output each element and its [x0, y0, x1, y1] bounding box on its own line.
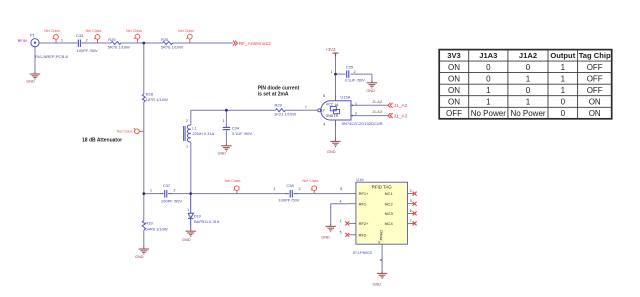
svg-text:0: 0 — [486, 63, 491, 72]
port RF_Antenna12 — [233, 41, 238, 46]
wire top: R25 to junction A — [121, 42, 144, 44]
svg-text:0: 0 — [486, 74, 491, 83]
wire top: junction A to R26 — [144, 42, 163, 44]
svg-text:ON: ON — [589, 109, 601, 118]
svg-text:NC2: NC2 — [385, 201, 394, 206]
net class flag 1 — [53, 35, 59, 43]
svg-text:1A: 1A — [334, 103, 339, 107]
junction E — [225, 109, 228, 112]
net class flag 6 — [233, 186, 239, 193]
svg-text:0.1UF /50V: 0.1UF /50V — [232, 131, 253, 136]
svg-text:L1: L1 — [192, 125, 197, 130]
port J1_A3 — [388, 113, 393, 118]
svg-text:ON: ON — [448, 86, 460, 95]
wire attenuator vertical: R28 to junction B — [143, 102, 145, 194]
svg-text:1: 1 — [61, 38, 63, 42]
wire U16 PPAD to ground — [381, 253, 383, 271]
svg-text:is set at 2mA: is set at 2mA — [258, 91, 289, 97]
svg-text:18 dB Attenuator: 18 dB Attenuator — [82, 137, 122, 143]
svg-text:64R9 1/10W: 64R9 1/10W — [145, 227, 167, 232]
svg-text:Net Class: Net Class — [117, 129, 133, 133]
resistor R26 — [163, 42, 173, 45]
wire +3V3 rail down to U15A pin 8 — [335, 56, 337, 101]
U16 pin 4 stub — [348, 203, 356, 205]
svg-text:RF2+: RF2+ — [359, 221, 370, 226]
svg-text:RF1+: RF1+ — [359, 191, 370, 196]
U15A pin 1 stub — [351, 104, 356, 106]
svg-text:Net Class: Net Class — [44, 29, 60, 33]
svg-text:1Y: 1Y — [321, 109, 326, 113]
U16 pin 9 stub — [381, 244, 383, 252]
net class flag 5 — [134, 128, 143, 134]
svg-text:BAP51LX,315: BAP51LX,315 — [194, 219, 220, 224]
svg-text:Tag Chip: Tag Chip — [579, 51, 611, 60]
inductor L1 — [184, 125, 191, 142]
svg-text:6: 6 — [410, 209, 412, 213]
svg-text:FA1-NREP-PCB-8: FA1-NREP-PCB-8 — [35, 54, 68, 59]
svg-text:1: 1 — [186, 145, 188, 149]
svg-text:ON: ON — [448, 63, 460, 72]
U15A pin 8 stub — [335, 95, 337, 101]
svg-text:Net Class: Net Class — [86, 29, 102, 33]
svg-text:4: 4 — [340, 199, 342, 203]
diode D10 — [188, 194, 194, 229]
wire junction D to C35 — [336, 73, 346, 75]
wire mid rail: L1 to R29 — [191, 109, 276, 111]
svg-text:GND: GND — [327, 150, 336, 154]
svg-text:J1_A2: J1_A2 — [394, 103, 408, 109]
svg-text:4: 4 — [323, 123, 325, 127]
wire bottom: junction C to C38 — [191, 193, 289, 195]
wire U15A pin 4 to ground — [335, 120, 337, 139]
U16 pin 1 stub — [349, 222, 356, 224]
svg-text:2: 2 — [299, 187, 301, 191]
truth table — [439, 50, 612, 119]
svg-text:8: 8 — [340, 187, 342, 191]
svg-text:2: 2 — [410, 189, 412, 193]
svg-text:J1A2: J1A2 — [519, 51, 537, 60]
svg-text:No Power: No Power — [510, 109, 545, 118]
ground R33 — [139, 247, 149, 255]
svg-text:GND: GND — [26, 80, 35, 84]
wire bottom: junction B to C37 — [144, 193, 163, 195]
svg-text:NC1: NC1 — [385, 191, 394, 196]
power +3V3 — [333, 53, 339, 56]
wire L1 top lead to mid rail — [190, 110, 192, 125]
no-connect X pin 5 — [345, 233, 349, 237]
svg-text:187R 1/10W: 187R 1/10W — [146, 97, 168, 102]
svg-text:2: 2 — [354, 70, 356, 74]
ground U16 RF1- — [326, 224, 336, 232]
svg-text:1B: 1B — [334, 114, 339, 118]
svg-text:1: 1 — [355, 101, 357, 105]
svg-text:1: 1 — [150, 189, 152, 193]
svg-text:RF IN: RF IN — [18, 39, 28, 43]
chip U16 — [353, 177, 408, 255]
svg-text:RFID TAG: RFID TAG — [372, 185, 393, 190]
svg-text:1: 1 — [561, 86, 566, 95]
svg-text:0: 0 — [526, 63, 531, 72]
svg-text:0: 0 — [561, 109, 566, 118]
svg-text:No Power: No Power — [471, 109, 506, 118]
wire attenuator vertical: junction A to R28 — [143, 43, 145, 94]
U15A pin 2 stub — [351, 115, 356, 117]
svg-text:OFF: OFF — [587, 63, 603, 72]
svg-text:RF1-: RF1- — [359, 201, 369, 206]
wire C34 branch upper — [225, 110, 227, 127]
svg-text:RF2-: RF2- — [359, 232, 369, 237]
capacitor C34 — [223, 127, 230, 129]
ground C34 — [221, 144, 231, 152]
svg-text:U16: U16 — [356, 177, 364, 182]
svg-text:GND: GND — [373, 282, 382, 286]
svg-text:OFF: OFF — [587, 74, 603, 83]
U16 pin 7 stub — [408, 222, 415, 224]
svg-text:100PF /50V: 100PF /50V — [278, 197, 299, 202]
ground C35 — [367, 81, 377, 89]
svg-text:1: 1 — [223, 119, 225, 123]
svg-text:1: 1 — [187, 208, 189, 212]
port J1_A2 — [388, 103, 393, 108]
svg-text:ON: ON — [589, 98, 601, 107]
svg-text:1: 1 — [486, 86, 491, 95]
svg-text:C33: C33 — [76, 33, 84, 38]
capacitor C37 — [165, 190, 167, 197]
svg-text:IPJ-P6003: IPJ-P6003 — [353, 250, 372, 255]
wire U15A output 1 to port J1_A2 — [356, 104, 388, 106]
svg-text:J1-A2: J1-A2 — [372, 100, 382, 104]
svg-text:0: 0 — [526, 86, 531, 95]
wire C34 branch lower to ground — [225, 131, 227, 144]
ground U15A — [330, 139, 340, 147]
wire C35 gnd drop — [371, 74, 373, 80]
svg-text:1: 1 — [486, 98, 491, 107]
svg-text:3V3: 3V3 — [447, 51, 461, 60]
U16 pin 8 stub — [348, 193, 356, 195]
wire bottom: C37 to junction C — [169, 193, 191, 195]
capacitor C35 — [347, 70, 349, 77]
wire U16 pin 4 horizontal — [331, 203, 349, 205]
junction B — [142, 192, 145, 195]
resistor R25 — [111, 42, 121, 45]
ground P1 — [30, 72, 40, 80]
svg-text:1: 1 — [340, 219, 342, 223]
U16 pin 3 stub — [408, 203, 415, 205]
net class flag 3 — [134, 34, 140, 42]
wire U16 pin 4 drop to ground — [330, 204, 332, 224]
svg-text:2: 2 — [174, 189, 176, 193]
svg-text:GND: GND — [135, 255, 144, 259]
svg-text:2: 2 — [86, 38, 88, 42]
svg-text:OFF: OFF — [587, 86, 603, 95]
svg-text:PPAD: PPAD — [379, 230, 384, 241]
SCHEMATIC-WIRES — [35, 43, 388, 271]
svg-text:R26: R26 — [161, 37, 169, 42]
wire R33 to ground — [143, 231, 145, 247]
svg-text:GND: GND — [218, 152, 227, 156]
wire P1 to ground — [34, 47, 36, 72]
wire top: C33 to R25 — [81, 42, 111, 44]
svg-text:5R76 1/10W: 5R76 1/10W — [108, 44, 130, 49]
wire mid rail: R29 to U15A input pin 7 — [285, 109, 308, 111]
svg-text:1: 1 — [526, 74, 531, 83]
svg-text:Net Class: Net Class — [225, 179, 241, 183]
U15A pin 4 stub — [335, 120, 337, 126]
svg-text:C34: C34 — [232, 125, 240, 130]
U16 pin 2 stub — [408, 193, 415, 195]
ground D10 — [186, 229, 196, 237]
svg-text:3: 3 — [410, 199, 412, 203]
svg-text:C35: C35 — [346, 64, 354, 69]
svg-text:P1: P1 — [30, 32, 36, 37]
wire C35 to gnd corner — [351, 73, 372, 75]
svg-text:1K21 1/10W: 1K21 1/10W — [274, 112, 296, 117]
svg-text:GND: GND — [182, 238, 191, 242]
svg-text:OFF: OFF — [446, 109, 462, 118]
wire bottom: C38 to U16 pin 8 — [294, 193, 348, 195]
connector P1 — [30, 32, 68, 59]
wire top: P1 to C33 — [39, 42, 77, 44]
svg-text:+3V3: +3V3 — [326, 47, 337, 52]
svg-text:Output: Output — [550, 51, 575, 60]
svg-text:100PF /50V: 100PF /50V — [77, 48, 98, 53]
resistor R28 — [142, 94, 145, 102]
svg-text:J1-A3: J1-A3 — [372, 110, 382, 114]
resistor R33 — [142, 221, 145, 231]
svg-text:Net Class: Net Class — [126, 29, 142, 33]
svg-text:7: 7 — [410, 219, 412, 223]
wire L1 bottom lead to junction C — [190, 142, 192, 194]
svg-text:5: 5 — [340, 231, 342, 235]
svg-text:0: 0 — [561, 98, 566, 107]
junction A — [142, 42, 145, 45]
svg-text:D10: D10 — [194, 214, 202, 219]
capacitor C33 — [78, 40, 80, 47]
svg-text:1: 1 — [526, 98, 531, 107]
wire U15A output 2 to port J1_A3 — [356, 115, 388, 117]
svg-text:VCC: VCC — [326, 102, 334, 106]
svg-text:RF_Antenna12: RF_Antenna12 — [239, 41, 272, 47]
svg-text:1: 1 — [331, 70, 333, 74]
svg-text:1: 1 — [561, 74, 566, 83]
svg-text:R25: R25 — [108, 37, 116, 42]
svg-text:2: 2 — [355, 112, 357, 116]
svg-text:Net Class: Net Class — [178, 29, 194, 33]
svg-text:ON: ON — [448, 98, 460, 107]
net class flag 7 — [311, 186, 317, 193]
svg-text:C38: C38 — [286, 183, 294, 188]
wire junction B to R33 — [143, 194, 145, 221]
svg-text:U15A: U15A — [340, 95, 350, 100]
svg-text:0.1UF /50V: 0.1UF /50V — [345, 78, 366, 83]
svg-text:1: 1 — [274, 187, 276, 191]
svg-text:SN74LVC2G132DCUR: SN74LVC2G132DCUR — [342, 121, 383, 126]
wire top: R26 to port RF_Antenna12 — [173, 42, 233, 44]
svg-text:ON: ON — [448, 74, 460, 83]
svg-text:R29: R29 — [275, 103, 283, 108]
svg-text:R28: R28 — [146, 91, 154, 96]
svg-text:2: 2 — [186, 119, 188, 123]
svg-text:8: 8 — [323, 94, 325, 98]
svg-text:100PF /50V: 100PF /50V — [161, 199, 182, 204]
svg-text:GND: GND — [321, 236, 330, 240]
svg-text:GND: GND — [366, 89, 375, 93]
U15A pin 7 stub — [309, 109, 318, 111]
junction C — [189, 192, 192, 195]
net class flag 2 — [94, 35, 100, 43]
svg-text:22NH 0.31A: 22NH 0.31A — [192, 131, 214, 136]
capacitor C38 — [290, 190, 292, 197]
svg-text:NC3: NC3 — [385, 211, 394, 216]
resistor R29 — [275, 109, 285, 112]
ground U16 PPAD — [377, 271, 387, 279]
svg-text:C37: C37 — [163, 183, 171, 188]
no-connect X pin 3 — [413, 202, 417, 206]
no-connect X pin 7 — [413, 221, 417, 225]
U16 pin 6 stub — [408, 212, 415, 214]
no-connect X pin 2 — [413, 192, 417, 196]
svg-text:9: 9 — [378, 241, 380, 245]
svg-text:1: 1 — [561, 63, 566, 72]
U16 pin 5 stub — [349, 234, 356, 236]
junction D — [334, 73, 337, 76]
no-connect X pin 1 — [345, 221, 349, 225]
svg-text:5R76 1/10W: 5R76 1/10W — [161, 44, 183, 49]
svg-text:Net Class: Net Class — [303, 179, 319, 183]
svg-text:J1_A3: J1_A3 — [394, 113, 408, 119]
svg-text:J1A3: J1A3 — [479, 51, 497, 60]
svg-text:R33: R33 — [145, 221, 153, 226]
no-connect X pin 6 — [413, 211, 417, 215]
svg-text:7: 7 — [305, 106, 307, 110]
svg-text:GND: GND — [326, 114, 334, 118]
net class flag 4 — [186, 34, 192, 42]
svg-text:NC4: NC4 — [385, 221, 394, 226]
op-amp gate U15A — [318, 95, 383, 126]
